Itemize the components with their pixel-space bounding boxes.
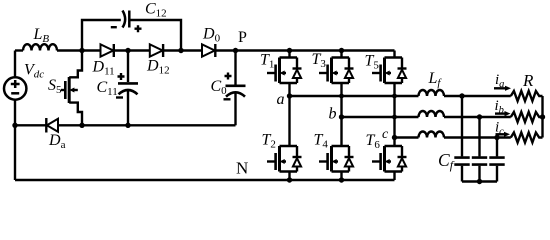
wire: phase a line after Lf (444, 95, 511, 97)
wire crossing blob: phase a over T3 leg (339, 94, 344, 99)
transistor T2 (267, 146, 302, 172)
wire: top rail D0 to bridge (215, 49, 394, 51)
wire: top rail left lead (15, 49, 23, 51)
minus sign of C0 (224, 98, 231, 100)
capacitor Cf phase a branch (461, 96, 463, 156)
resistor R phase b (511, 112, 543, 122)
resistor R phase c (511, 133, 543, 143)
svg-text:a: a (277, 91, 285, 108)
capacitor C0 (234, 51, 236, 85)
source Vdc (4, 77, 26, 99)
node: LB/S5/C12 junction (79, 48, 84, 53)
wire crossing blob: phase a over T5 leg (392, 94, 397, 99)
wire: left vertical from top rail to Vdc+ (14, 51, 16, 78)
svg-text:D11: D11 (92, 59, 115, 78)
wire: Da to C0 bottom (58, 124, 236, 126)
wire crossing blob: phase b over T5 leg (392, 115, 397, 120)
capacitor C12 (123, 11, 126, 28)
svg-text:S5: S5 (48, 77, 62, 96)
svg-text:T1: T1 (260, 52, 274, 71)
arrow ia (494, 87, 506, 89)
svg-text:LB: LB (33, 26, 50, 45)
wire: phase c line (395, 136, 419, 138)
wire: Cf common bottom rail (462, 180, 497, 182)
svg-text:Da: Da (48, 132, 66, 151)
wire: D11 to D12 (114, 49, 150, 51)
capacitor Cf phase c branch (496, 138, 498, 157)
node: S5 source junction (79, 123, 84, 128)
svg-text:Lf: Lf (428, 70, 443, 89)
wire: D12 to D0 (163, 49, 202, 51)
node: C12 right junction (178, 48, 183, 53)
wire: phase a line (290, 95, 419, 97)
svg-text:T6: T6 (366, 132, 381, 151)
svg-text:P: P (238, 29, 247, 46)
wire: C12 branch left vertical (82, 20, 121, 51)
svg-text:D12: D12 (146, 58, 170, 77)
node: C11 junction (125, 48, 130, 53)
transistor T4 (319, 146, 354, 172)
diode Da (47, 119, 58, 132)
svg-text:D0: D0 (202, 26, 221, 45)
svg-text:C0: C0 (211, 78, 228, 97)
svg-text:ib: ib (495, 98, 504, 116)
wire: middle line (Da line) (15, 124, 46, 126)
svg-text:C11: C11 (97, 79, 118, 98)
transistor T5 (372, 58, 407, 84)
wire: right bus (541, 96, 543, 138)
arrow ic (496, 133, 507, 135)
inductor LB (23, 44, 57, 50)
diode D12 (150, 44, 163, 56)
transistor T1 (267, 58, 302, 84)
svg-text:ia: ia (495, 72, 504, 90)
node: C11 bottom junction (125, 123, 130, 128)
wire: bottom rail N (15, 179, 395, 181)
inductor Lf phase a (419, 90, 445, 96)
diode D0 (202, 44, 215, 56)
wire: top rail LB to D11 (57, 49, 101, 51)
capacitor Cf phase b branch (478, 117, 480, 156)
node b (339, 114, 344, 119)
inductor Lf phase b (419, 111, 445, 117)
inductor Lf phase c (419, 132, 445, 138)
wire: phase c line after Lf (444, 136, 511, 138)
resistor R phase a (511, 91, 543, 101)
wire: phase b line after Lf (444, 116, 511, 118)
minus sign of C11 (116, 96, 123, 98)
minus sign of C12 (111, 26, 117, 28)
svg-text:b: b (329, 106, 337, 123)
svg-text:C12: C12 (145, 1, 167, 20)
svg-text:R: R (522, 71, 534, 90)
diode D11 (101, 44, 114, 56)
node: middle line left (12, 123, 17, 128)
svg-text:ic: ic (495, 120, 504, 138)
svg-text:T2: T2 (262, 132, 276, 151)
wire: phase b line (342, 116, 419, 118)
transistor T3 (319, 58, 354, 84)
svg-text:T5: T5 (365, 53, 380, 72)
svg-text:T4: T4 (314, 132, 329, 151)
svg-text:c: c (382, 127, 389, 142)
transistor S5 (69, 51, 82, 78)
node P (233, 48, 238, 53)
wire: left vertical from Vdc- to bottom rail (14, 100, 16, 180)
node c (392, 135, 397, 140)
arrow ib (495, 112, 506, 114)
transistor T6 (372, 146, 407, 172)
node a (287, 93, 292, 98)
svg-text:Vdc: Vdc (24, 62, 44, 81)
svg-text:N: N (236, 159, 248, 178)
plus sign of C11 (118, 73, 125, 80)
capacitor C11 (127, 51, 129, 83)
plus sign of C12 (135, 25, 142, 32)
svg-text:T3: T3 (312, 51, 327, 70)
plus sign of C0 (225, 73, 232, 80)
wire: C12 branch right side (129, 20, 181, 51)
svg-text:Cf: Cf (438, 150, 455, 172)
